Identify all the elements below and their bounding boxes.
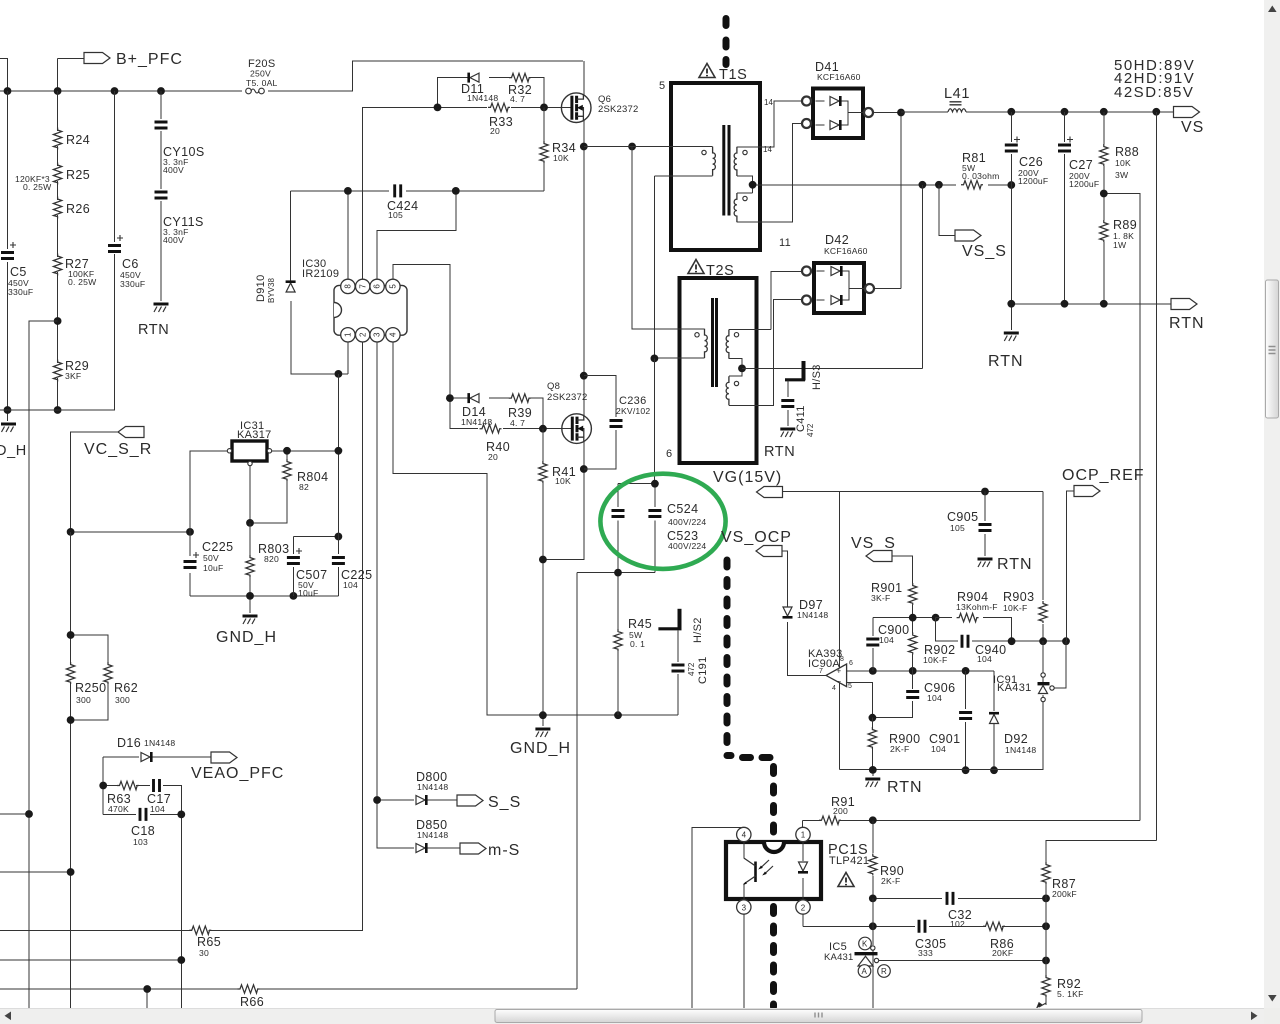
svg-text:D16: D16 xyxy=(117,736,141,750)
svg-text:5: 5 xyxy=(848,683,852,690)
svg-text:20KF: 20KF xyxy=(992,948,1013,958)
svg-text:R26: R26 xyxy=(66,202,90,216)
svg-text:R25: R25 xyxy=(66,168,90,182)
svg-text:VS_S: VS_S xyxy=(851,535,896,552)
svg-text:C6: C6 xyxy=(122,257,139,271)
svg-text:11: 11 xyxy=(779,237,791,249)
svg-text:IR2109: IR2109 xyxy=(302,268,339,280)
svg-text:104: 104 xyxy=(879,635,894,645)
svg-text:C27: C27 xyxy=(1069,158,1093,172)
svg-text:4: 4 xyxy=(832,685,836,692)
svg-text:105: 105 xyxy=(950,523,965,533)
svg-text:20: 20 xyxy=(488,452,498,462)
svg-text:RTN: RTN xyxy=(997,556,1033,573)
svg-text:4. 7: 4. 7 xyxy=(510,418,525,428)
svg-text:14: 14 xyxy=(764,98,773,107)
svg-text:2KV/102: 2KV/102 xyxy=(616,406,650,416)
svg-text:VS_OCP: VS_OCP xyxy=(721,529,792,546)
svg-text:820: 820 xyxy=(264,554,279,564)
svg-text:7: 7 xyxy=(819,668,823,675)
svg-text:250V: 250V xyxy=(250,69,271,79)
svg-text:4: 4 xyxy=(389,332,398,337)
svg-text:VS: VS xyxy=(1181,119,1204,136)
svg-text:10K-F: 10K-F xyxy=(1003,603,1027,613)
svg-text:0. 25W: 0. 25W xyxy=(23,182,52,192)
svg-text:Q8: Q8 xyxy=(547,381,560,392)
svg-text:4: 4 xyxy=(742,831,747,840)
svg-text:1200uF: 1200uF xyxy=(1069,179,1099,189)
svg-text:10uF: 10uF xyxy=(298,588,318,598)
svg-text:105: 105 xyxy=(388,210,403,220)
svg-text:RTN: RTN xyxy=(138,322,169,338)
svg-text:S_S: S_S xyxy=(488,794,521,811)
svg-text:1: 1 xyxy=(344,332,353,337)
svg-text:A: A xyxy=(862,967,868,976)
svg-text:333: 333 xyxy=(918,948,933,958)
svg-text:400V/224: 400V/224 xyxy=(668,517,706,527)
svg-text:1N4148: 1N4148 xyxy=(1005,745,1036,755)
svg-text:R24: R24 xyxy=(66,133,90,147)
svg-text:L41: L41 xyxy=(944,86,970,102)
svg-text:6: 6 xyxy=(849,660,853,667)
svg-text:103: 103 xyxy=(133,837,148,847)
svg-text:400V: 400V xyxy=(163,235,184,245)
svg-text:R65: R65 xyxy=(197,935,221,949)
svg-text:KCF16A60: KCF16A60 xyxy=(817,72,861,82)
svg-text:R903: R903 xyxy=(1003,590,1034,604)
svg-text:K: K xyxy=(862,940,868,949)
svg-text:1N4148: 1N4148 xyxy=(797,610,828,620)
svg-text:3KF: 3KF xyxy=(65,371,81,381)
svg-text:470K: 470K xyxy=(108,804,129,814)
svg-text:10K-F: 10K-F xyxy=(923,655,947,665)
svg-text:8: 8 xyxy=(840,656,844,663)
svg-text:2: 2 xyxy=(801,904,806,913)
svg-text:R45: R45 xyxy=(628,617,652,631)
svg-text:3: 3 xyxy=(742,904,747,913)
svg-text:330uF: 330uF xyxy=(8,287,33,297)
svg-text:R250: R250 xyxy=(75,681,106,695)
svg-text:GND_H: GND_H xyxy=(510,740,571,757)
svg-text:1: 1 xyxy=(801,831,806,840)
svg-text:3K-F: 3K-F xyxy=(871,593,890,603)
svg-text:300: 300 xyxy=(76,695,91,705)
svg-text:T1S: T1S xyxy=(719,67,747,83)
svg-text:200: 200 xyxy=(833,806,848,816)
svg-text:4. 7: 4. 7 xyxy=(510,94,525,104)
svg-text:C225: C225 xyxy=(202,540,233,554)
svg-text:20: 20 xyxy=(490,126,500,136)
svg-text:VC_S_R: VC_S_R xyxy=(84,441,152,458)
svg-text:2K-F: 2K-F xyxy=(890,744,909,754)
svg-text:D_H: D_H xyxy=(0,443,27,459)
svg-text:R88: R88 xyxy=(1115,145,1139,159)
svg-text:10uF: 10uF xyxy=(203,563,223,573)
svg-text:KA431: KA431 xyxy=(824,952,854,963)
svg-text:VEAO_PFC: VEAO_PFC xyxy=(191,765,284,782)
svg-text:1W: 1W xyxy=(1113,240,1127,250)
svg-text:5. 1KF: 5. 1KF xyxy=(1057,989,1084,999)
svg-text:330uF: 330uF xyxy=(120,279,145,289)
svg-text:RTN: RTN xyxy=(764,444,795,460)
svg-text:IC90A: IC90A xyxy=(808,658,840,670)
svg-text:D92: D92 xyxy=(1004,732,1028,746)
svg-text:300: 300 xyxy=(115,695,130,705)
svg-text:R62: R62 xyxy=(114,681,138,695)
svg-text:6: 6 xyxy=(666,448,672,460)
svg-text:472: 472 xyxy=(687,662,696,676)
svg-text:1N4148: 1N4148 xyxy=(461,417,492,427)
svg-text:T5. 0AL: T5. 0AL xyxy=(246,78,278,88)
svg-text:C26: C26 xyxy=(1019,155,1043,169)
svg-text:OCP_REF: OCP_REF xyxy=(1062,467,1145,484)
svg-text:102: 102 xyxy=(950,919,965,929)
svg-text:H/S3: H/S3 xyxy=(811,364,823,390)
svg-text:3: 3 xyxy=(373,332,382,337)
svg-text:0. 03ohm: 0. 03ohm xyxy=(962,171,999,181)
svg-text:D42: D42 xyxy=(825,233,849,247)
svg-text:R: R xyxy=(881,967,887,976)
svg-text:1N4148: 1N4148 xyxy=(417,782,448,792)
svg-text:82: 82 xyxy=(299,482,309,492)
svg-text:10K: 10K xyxy=(553,153,569,163)
svg-text:6: 6 xyxy=(373,284,382,289)
svg-text:C905: C905 xyxy=(947,510,978,524)
svg-text:1200uF: 1200uF xyxy=(1018,176,1048,186)
svg-text:RTN: RTN xyxy=(1169,315,1205,332)
svg-text:1N4148: 1N4148 xyxy=(144,738,175,748)
svg-text:C191: C191 xyxy=(697,657,709,685)
svg-text:RTN: RTN xyxy=(887,779,923,796)
svg-text:GND_H: GND_H xyxy=(216,629,277,646)
svg-text:2SK2372: 2SK2372 xyxy=(598,104,639,115)
svg-text:13Kohm-F: 13Kohm-F xyxy=(956,602,998,612)
svg-text:104: 104 xyxy=(343,580,358,590)
svg-text:KCF16A60: KCF16A60 xyxy=(824,246,868,256)
svg-text:RTN: RTN xyxy=(988,353,1024,370)
svg-text:104: 104 xyxy=(150,804,165,814)
svg-text:C18: C18 xyxy=(131,824,155,838)
svg-text:14: 14 xyxy=(763,145,772,154)
svg-text:C524: C524 xyxy=(667,502,698,516)
svg-text:VG(15V): VG(15V) xyxy=(713,469,782,486)
svg-text:KA317: KA317 xyxy=(237,429,272,441)
svg-text:1N4148: 1N4148 xyxy=(467,93,498,103)
svg-text:−: − xyxy=(837,677,842,686)
svg-text:1N4148: 1N4148 xyxy=(417,830,448,840)
svg-text:104: 104 xyxy=(927,693,942,703)
svg-text:472: 472 xyxy=(806,423,815,437)
svg-text:VS_S: VS_S xyxy=(962,243,1007,260)
svg-text:R89: R89 xyxy=(1113,218,1137,232)
svg-text:0. 1: 0. 1 xyxy=(630,639,645,649)
svg-text:TLP421: TLP421 xyxy=(829,855,869,867)
svg-text:2SK2372: 2SK2372 xyxy=(547,392,588,403)
svg-text:104: 104 xyxy=(977,654,992,664)
svg-text:m-S: m-S xyxy=(488,842,520,859)
svg-text:10K: 10K xyxy=(555,476,571,486)
svg-text:5: 5 xyxy=(389,284,398,289)
svg-text:B+_PFC: B+_PFC xyxy=(116,51,183,68)
svg-text:KA431: KA431 xyxy=(997,682,1032,694)
svg-text:D910: D910 xyxy=(255,275,267,303)
svg-text:2K-F: 2K-F xyxy=(881,876,900,886)
svg-text:42SD:85V: 42SD:85V xyxy=(1114,84,1194,101)
svg-text:200kF: 200kF xyxy=(1052,889,1077,899)
svg-text:C5: C5 xyxy=(10,265,27,279)
svg-text:0. 25W: 0. 25W xyxy=(68,277,97,287)
svg-text:R66: R66 xyxy=(240,995,264,1009)
svg-text:7: 7 xyxy=(358,284,367,289)
svg-text:8: 8 xyxy=(344,284,353,289)
svg-text:50V: 50V xyxy=(203,553,219,563)
svg-text:400V/224: 400V/224 xyxy=(668,541,706,551)
svg-text:2: 2 xyxy=(358,332,367,337)
svg-text:H/S2: H/S2 xyxy=(692,617,704,643)
svg-text:30: 30 xyxy=(199,948,209,958)
svg-text:BYV38: BYV38 xyxy=(267,278,276,303)
svg-text:5: 5 xyxy=(659,80,665,92)
svg-text:10K: 10K xyxy=(1115,158,1131,168)
svg-text:3W: 3W xyxy=(1115,170,1129,180)
svg-text:400V: 400V xyxy=(163,165,184,175)
svg-text:104: 104 xyxy=(931,744,946,754)
